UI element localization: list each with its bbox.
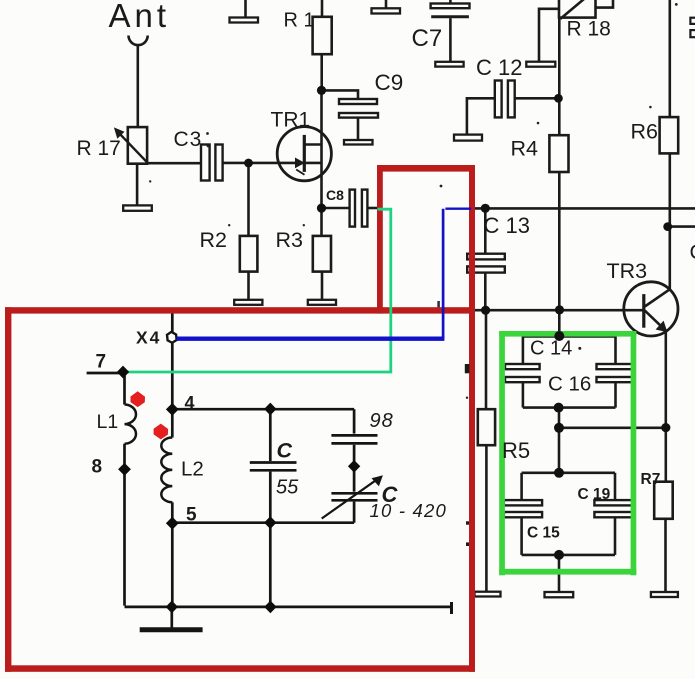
wire junction A down to R2 (247, 163, 250, 236)
wire R1 top (321, 0, 324, 17)
junction R1 / TR1 collector / C9 (317, 86, 326, 95)
ground bar under C7 (435, 62, 463, 67)
node 5 (166, 517, 179, 530)
capacitor C 55 top stem (269, 409, 272, 461)
red spot 2 (154, 424, 169, 440)
resistor R18 body (559, 0, 596, 18)
svg-text:C 14: C 14 (530, 338, 572, 360)
transistor TR1 collector line (304, 143, 321, 146)
ground bar under R7 (651, 592, 678, 597)
svg-text:C 19: C 19 (578, 486, 611, 503)
transistor TR3 circle (624, 282, 678, 336)
variable capacitor bottom stem (353, 502, 356, 523)
ground bar top-left (230, 18, 259, 23)
svg-text:R6: R6 (631, 120, 659, 144)
junction C15 C19 bottom node (554, 550, 564, 560)
wire C9 lower stem (357, 118, 360, 140)
capacitor C12 plates (495, 81, 502, 118)
junction R18 / C12 / R4 (554, 94, 563, 103)
resistor R17 body (128, 127, 147, 164)
capacitor C7 top plate (431, 4, 470, 9)
transistor TR3 emitter line (645, 311, 666, 331)
C14 left branch top (522, 336, 525, 364)
ground bar under C9 (344, 140, 373, 145)
variable capacitor arrow head (372, 475, 383, 486)
resistor R1 body (313, 17, 332, 54)
resistor R5 body (478, 409, 495, 445)
inductor L1 coil (125, 405, 137, 444)
wire TR3 emitter down (664, 330, 667, 482)
junction C13 bottom / R5 / TR3 base rail (481, 306, 490, 315)
svg-text:R2: R2 (200, 228, 227, 252)
resistor R2 body (240, 236, 258, 272)
svg-text:L2: L2 (181, 458, 204, 481)
svg-text:5: 5 (186, 505, 197, 526)
junction bottom rail / ground (166, 601, 178, 614)
node 7 (117, 366, 129, 379)
red frame right vertical edge (469, 165, 475, 672)
red frame tower top edge (377, 165, 475, 172)
black diamond junctions in subcircuit (117, 366, 361, 614)
wire C3 to TR1 base (223, 162, 303, 165)
svg-text:C9: C9 (375, 70, 404, 95)
junction node5 rail / C 55 bottom (264, 516, 276, 529)
svg-text:C 15: C 15 (527, 525, 560, 542)
junction middle node to TR3 emitter wire (554, 423, 564, 433)
TR3 base rail (474, 309, 644, 312)
wire R1 to node B (320, 54, 323, 90)
transistor TR1 emitter line (304, 162, 321, 165)
ground bar under C12 (454, 135, 482, 141)
C15 left branch top (520, 473, 523, 500)
node 5 horizontal wire (172, 521, 354, 524)
ground stem in box (170, 607, 173, 628)
node 4 (166, 403, 179, 416)
capacitor C13 bottom stem (484, 273, 487, 311)
ground bar in box (140, 627, 203, 632)
junction R4 rail / TR3 base rail (555, 305, 564, 314)
svg-text:TR1: TR1 (271, 109, 311, 132)
wire X4 down to node 4 (171, 343, 174, 409)
bottom rail end tick (450, 602, 453, 614)
svg-text:7: 7 (96, 352, 107, 373)
capacitor C7 lower plate line (431, 15, 469, 18)
green frame left edge (499, 331, 505, 575)
capacitor C13 top stem (484, 208, 487, 253)
wire R17 to C3 (148, 162, 201, 165)
junction capacitor 98 / variable capacitor (348, 460, 360, 473)
svg-text:R 1: R 1 (284, 10, 315, 32)
svg-text:X4: X4 (136, 328, 161, 348)
capacitor C9 plates (339, 99, 377, 104)
transistor TR1 circle (277, 127, 331, 181)
C15 C19 top node wire (522, 471, 615, 474)
junction TR1 base / R2 / C3 (244, 159, 253, 168)
wire R5 to ground (485, 445, 488, 592)
wire TR1 vertical collector-emitter rail (320, 90, 323, 208)
C14 C16 top node wire (523, 335, 616, 338)
wire TR1 emitter to C8 (322, 207, 350, 210)
green wire C8 to node 7 (123, 209, 391, 372)
junction TR3 emitter / R7 (661, 423, 670, 432)
wire R5 top (485, 310, 488, 409)
junction dots on colored area (481, 305, 670, 560)
capacitor C12 right wire (515, 97, 560, 100)
black tick on red line lower 1 (466, 521, 469, 524)
ground bar under R2 (234, 300, 262, 305)
variable capacitor arrow (322, 478, 380, 519)
black tick on red line lower 2 (466, 542, 469, 546)
svg-text:R7: R7 (641, 471, 661, 488)
node 8 (118, 463, 131, 476)
C14 C16 bottom node wire (523, 406, 616, 409)
capacitor C7 lower stem (449, 18, 452, 62)
wire R4 node into green box (558, 310, 561, 336)
wire R3 top (320, 208, 323, 236)
wire R7 to ground (664, 519, 667, 592)
wire X4 stub above (171, 313, 174, 332)
wire R18 right (596, 0, 614, 8)
green frame bottom edge (499, 569, 636, 575)
antenna Ant symbol (129, 36, 148, 46)
wire middle node vertical (558, 408, 561, 473)
red frame big box left edge (5, 307, 11, 672)
svg-text:R 17: R 17 (77, 137, 121, 160)
junction C14 C16 bottom node (554, 403, 564, 413)
green frame top edge (499, 331, 636, 337)
svg-text:4: 4 (185, 393, 195, 413)
svg-text:C 16: C 16 (548, 373, 591, 396)
svg-text:55: 55 (276, 477, 299, 499)
node 4 horizontal wire (172, 408, 354, 411)
C14 left branch bottom (522, 382, 525, 407)
red frame big box top edge (5, 307, 475, 313)
svg-text:C3: C3 (174, 128, 203, 151)
resistor R18 diagonal arrow (560, 0, 584, 19)
wire C12 node down to R4 (558, 98, 561, 135)
ground bar under R5 (475, 592, 501, 597)
capacitor C8 plates (350, 190, 355, 227)
wire node 5 down to bottom rail (171, 523, 174, 607)
junction node4 rail / C 55 (264, 403, 276, 416)
capacitor C15 plates (504, 500, 542, 505)
svg-text:8: 8 (92, 457, 103, 478)
svg-text:Ant: Ant (109, 0, 171, 34)
svg-text:98: 98 (370, 410, 394, 432)
black tick on red line at node row (465, 364, 470, 373)
svg-text:C: C (690, 241, 695, 264)
wire R18 left (539, 9, 559, 62)
wire node 7 down to L1 (123, 372, 126, 405)
wire R3 to ground (321, 272, 324, 300)
dark notch above red top edge at blue wire (437, 301, 440, 307)
capacitor 98 plates (331, 434, 377, 437)
transistor TR3 collector line (645, 289, 670, 306)
wire bottom node to ground (558, 555, 561, 592)
arrow head TR3 emitter (656, 321, 668, 333)
svg-text:R4: R4 (511, 137, 539, 161)
svg-text:C7: C7 (412, 25, 443, 52)
junction TR1 emitter / R3 / C8 (317, 204, 326, 213)
junction C14 C16 top node (554, 331, 564, 341)
svg-text:C: C (277, 439, 293, 463)
wire middle node to TR3 emitter (559, 426, 666, 429)
wire stub to right edge capacitor (668, 225, 695, 228)
wire node 4 to L2 (171, 409, 174, 437)
inductor L2 coil (161, 438, 172, 503)
wire antenna down to R17 (137, 45, 140, 127)
resistor R6 body (660, 117, 679, 153)
resistor R3 body (313, 236, 331, 272)
ground bar under R18 (526, 62, 555, 67)
capacitor C13 plates (467, 254, 505, 260)
wire R18 down to C12 node (558, 18, 561, 99)
blue wire vertical (442, 209, 445, 339)
svg-text:C 13: C 13 (484, 213, 530, 238)
capacitor C16 plates (597, 364, 633, 369)
capacitor C 55 plates (250, 461, 297, 464)
C15 C19 bottom node wire (522, 554, 615, 557)
C16 right branch bottom (614, 382, 617, 407)
svg-text:TR3: TR3 (607, 259, 648, 283)
ground stem top-left (244, 0, 247, 18)
capacitor C14 plates (505, 364, 540, 369)
capacitor C3 plates (201, 145, 210, 181)
ground bar under R3 (308, 300, 336, 305)
junction C15 C19 top node (554, 468, 564, 478)
tiny scan specks (149, 3, 678, 399)
wire R2 to ground (247, 272, 250, 300)
svg-text:10 - 420: 10 - 420 (370, 500, 448, 521)
ground bar under R17 (123, 205, 152, 210)
X4 port symbol (167, 332, 177, 343)
node 7 stub wire (87, 372, 122, 375)
junction bottom rail / C 55 branch (264, 601, 276, 614)
arrow head TR1 emitter (295, 158, 305, 175)
wire R17 to ground (136, 164, 139, 206)
junction dots upper schematic (244, 86, 672, 231)
capacitor C12 left wire (467, 98, 495, 134)
variable capacitor C plates (331, 492, 377, 495)
wire C8 to red box edge (367, 207, 379, 210)
capacitor 98 branch top (353, 409, 356, 433)
junction main rail / C13 top (481, 204, 490, 213)
wire R4 down across main rail (558, 172, 561, 310)
svg-text:C8: C8 (326, 187, 344, 203)
red frame big box bottom edge (5, 665, 475, 672)
wire node B to C9 (322, 90, 359, 99)
svg-text:L1: L1 (97, 411, 119, 433)
arrow head R17 (114, 127, 148, 163)
transistor TR1 base bar (303, 135, 306, 172)
ground bar top-mid (372, 8, 401, 13)
wire R6 down to TR3 collector (668, 153, 671, 290)
wire C55 node down to bottom rail (269, 523, 272, 607)
capacitor C19 plates (594, 500, 634, 505)
C16 right branch top (614, 336, 617, 364)
svg-text:R5: R5 (502, 438, 530, 463)
main horizontal rail right segment (474, 207, 695, 210)
red frame tower left edge (377, 165, 383, 314)
capacitor cut off at right edge (690, 18, 695, 38)
transistor TR3 base bar (642, 294, 645, 328)
junction R6 rail / edge capacitor stub (663, 222, 672, 231)
blue wire X4 horizontal (177, 337, 445, 341)
wire R6 top (668, 0, 671, 117)
ground bar under C15 (545, 592, 574, 597)
resistor R7 body (654, 482, 673, 519)
capacitor 98 bottom stem (353, 445, 356, 492)
resistor R4 body (549, 135, 568, 172)
capacitor C 55 bottom stem (269, 472, 272, 523)
C19 right branch top (614, 473, 617, 500)
green frame right edge (631, 331, 637, 575)
wire L2 to node 5 (171, 502, 174, 523)
svg-text:R 18: R 18 (567, 18, 611, 41)
blue wire stub on main rail (445, 207, 471, 209)
C15 left branch bottom (520, 517, 523, 555)
bottom rail wire (125, 606, 452, 609)
wire L1 to node 8 and down (123, 444, 126, 606)
svg-text:R3: R3 (276, 228, 304, 252)
red spot 1 (131, 391, 146, 407)
C19 right branch bottom (614, 517, 617, 555)
ground stem top-mid (385, 0, 388, 8)
capacitor C7 top stem (449, 0, 452, 4)
svg-text:C 12: C 12 (476, 55, 522, 80)
